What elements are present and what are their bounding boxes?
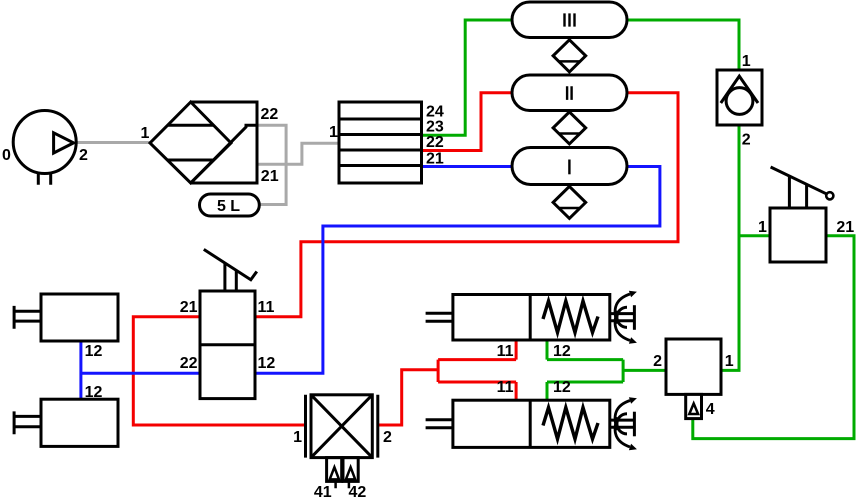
impulse valve (small box with pilot) — [666, 339, 721, 419]
check valve — [717, 70, 762, 125]
svg-text:21: 21 — [426, 151, 444, 168]
svg-text:4: 4 — [706, 401, 715, 418]
wire: green capsule III to check valve port 1 — [627, 20, 739, 70]
wire: red center valve port 21 to X-valve port 1 — [133, 317, 305, 425]
center valve (lever detent valve) — [200, 249, 257, 398]
svg-text:1: 1 — [293, 429, 302, 446]
wire: blue manifold port 21 to capsule I — [422, 165, 513, 168]
wire: green lever valve port 21 to pilot port 4 — [693, 236, 854, 439]
svg-text:1: 1 — [329, 124, 338, 141]
svg-text:42: 42 — [349, 484, 367, 499]
spring cylinder bottom — [426, 400, 610, 447]
svg-text:1: 1 — [141, 125, 150, 142]
capsule II — [512, 75, 627, 111]
svg-text:2: 2 — [383, 429, 392, 446]
wire: blue center valve port 22 to left cylinders ports 12 — [81, 341, 200, 399]
wire: red manifold port 22 to capsule II — [422, 93, 513, 151]
lever valve (right, roller lever) — [770, 167, 833, 262]
X-valve (counter) — [306, 395, 378, 489]
svg-text:22: 22 — [261, 106, 279, 123]
wire: gray service unit port 21 to manifold port 1 — [257, 143, 339, 164]
spring cylinder top — [426, 295, 610, 341]
manifold block — [339, 102, 422, 183]
svg-text:21: 21 — [180, 299, 198, 316]
wire: green branch to lever valve port 1 — [739, 234, 770, 237]
left cylinder bottom — [14, 399, 118, 446]
capsule III — [512, 2, 627, 38]
svg-text:0: 0 — [2, 147, 11, 164]
rotary symbol bottom cylinder — [610, 397, 637, 450]
svg-text:2: 2 — [653, 353, 662, 370]
wire: green check valve port 2 down to impulse valve port 1 — [721, 125, 739, 370]
filter diamond under I — [553, 186, 586, 218]
service unit (filter regulator) — [150, 102, 257, 183]
svg-text:11: 11 — [497, 343, 514, 360]
svg-text:11: 11 — [258, 299, 275, 316]
svg-text:22: 22 — [426, 134, 444, 151]
svg-text:21: 21 — [836, 219, 854, 236]
svg-text:12: 12 — [553, 379, 571, 396]
svg-text:12: 12 — [553, 343, 571, 360]
rotary symbol top cylinder — [610, 291, 637, 344]
svg-text:12: 12 — [85, 384, 103, 401]
svg-text:23: 23 — [426, 119, 444, 136]
wire: gray service unit port 22 to reservoir — [257, 125, 286, 204]
reservoir 5 L — [200, 194, 260, 216]
svg-text:2: 2 — [742, 132, 751, 149]
wire: gray supply compressor to service unit — [76, 141, 150, 144]
wire: blue capsule I to center valve port 12 — [255, 167, 660, 374]
svg-text:5 L: 5 L — [217, 198, 240, 215]
svg-text:21: 21 — [261, 168, 279, 185]
filter diamond under II — [553, 112, 586, 144]
svg-text:1: 1 — [725, 353, 734, 370]
svg-text:12: 12 — [85, 343, 103, 360]
svg-text:11: 11 — [497, 379, 514, 396]
svg-text:41: 41 — [314, 484, 332, 499]
left cylinder top — [14, 294, 118, 341]
capsule I — [512, 148, 627, 185]
filter diamond under III — [553, 40, 586, 72]
wire: red X-valve port 2 to spring cylinders ports 11 — [378, 340, 516, 425]
compressor 0 — [13, 111, 76, 185]
wire: red capsule II to center valve port 11 — [255, 93, 678, 317]
wire: green impulse valve port 2 to spring cylinders ports 12 — [547, 340, 666, 400]
svg-text:2: 2 — [79, 147, 88, 164]
svg-text:22: 22 — [180, 355, 198, 372]
svg-text:1: 1 — [758, 219, 767, 236]
wire: green manifold port 23 to capsule III — [422, 20, 513, 135]
svg-text:12: 12 — [258, 355, 276, 372]
svg-text:1: 1 — [742, 53, 751, 70]
